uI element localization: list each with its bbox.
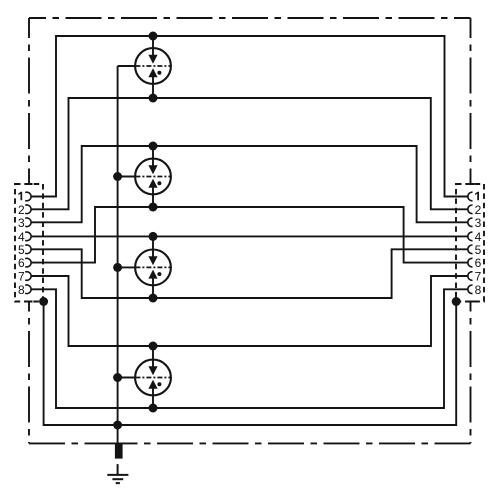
enclosure dash-dot border bottom right part — [118, 442, 471, 444]
wire terminal 2 left-right via G1 bottom bus — [31, 98, 469, 209]
stub G4 bottom — [152, 395, 154, 408]
right terminal 7 contact and label — [468, 270, 482, 284]
node shield-ground junction — [113, 421, 122, 430]
wire terminal 3 left-right via G2 top bus — [31, 146, 469, 222]
right terminal 8 contact and label — [468, 283, 482, 297]
left terminal 2 contact and label — [18, 203, 31, 217]
svg-text:7: 7 — [475, 270, 482, 284]
right terminal 3 contact and label — [468, 216, 482, 230]
stub G2 left electrode — [118, 176, 136, 178]
enclosure dash-dot border top — [29, 17, 471, 19]
svg-text:6: 6 — [475, 256, 482, 270]
node G3 top junction — [149, 232, 158, 241]
node G2 bottom junction — [149, 203, 158, 212]
svg-text:4: 4 — [18, 230, 25, 244]
stub G4 left electrode — [118, 377, 136, 379]
svg-text:2: 2 — [18, 203, 25, 217]
stub G3 bottom — [152, 285, 154, 298]
PE terminal block — [115, 444, 123, 459]
svg-text:7: 7 — [18, 270, 25, 284]
node G1 top junction — [149, 32, 158, 41]
right terminal 4 contact and label — [468, 230, 482, 244]
right terminal block outline — [456, 184, 484, 302]
svg-text:6: 6 — [18, 256, 25, 270]
wire terminal 4 straight through G3 top bus — [31, 235, 469, 237]
stub G3 left electrode — [118, 266, 136, 268]
svg-text:3: 3 — [18, 216, 25, 230]
ground bus vertical wire — [117, 66, 119, 444]
node G2 top junction — [149, 142, 158, 151]
stub G1 top — [152, 36, 154, 49]
gas discharge tube G1 — [135, 48, 171, 84]
wire terminal 7 left-right via G4 top bus — [31, 276, 469, 346]
node G3 bottom junction — [149, 294, 158, 303]
node G4 left junction — [113, 373, 122, 382]
stub G1 left electrode — [118, 65, 136, 67]
left terminal 6 contact and label — [18, 256, 31, 270]
right terminal 1 contact and label — [468, 192, 479, 201]
enclosure dash-dot border right lower — [470, 302, 472, 444]
left terminal block outline — [15, 184, 43, 302]
stub G2 top — [152, 146, 154, 159]
shield wire between block corner nodes — [44, 302, 457, 426]
node G1 bottom junction — [149, 94, 158, 103]
left terminal 7 contact and label — [18, 270, 31, 284]
node G4 bottom junction — [149, 404, 158, 413]
enclosure dash-dot border right upper — [470, 18, 472, 184]
enclosure dash-dot border left upper — [28, 18, 30, 184]
svg-text:8: 8 — [18, 283, 25, 297]
svg-text:3: 3 — [475, 216, 482, 230]
left terminal 5 contact and label — [18, 243, 31, 257]
node shield left block corner — [39, 297, 48, 306]
node G4 top junction — [149, 342, 158, 351]
node G3 left junction — [113, 263, 122, 272]
node shield right block corner — [452, 297, 461, 306]
wire terminal 8 left-right via G4 bottom bus — [31, 289, 469, 408]
stub G2 bottom — [152, 194, 154, 207]
svg-text:2: 2 — [475, 203, 482, 217]
svg-text:5: 5 — [18, 243, 25, 257]
right terminal 6 contact and label — [468, 256, 482, 270]
left terminal 1 contact and label — [18, 192, 31, 201]
ground — [107, 464, 128, 483]
left terminal 4 contact and label — [18, 230, 31, 244]
left terminal 3 contact and label — [18, 216, 31, 230]
stub G4 top — [152, 346, 154, 360]
node G2 left junction — [113, 172, 122, 181]
right terminal 5 contact and label — [468, 243, 482, 257]
gas discharge tube G4 — [135, 360, 171, 396]
svg-text:4: 4 — [475, 230, 482, 244]
gas discharge tube G3 — [135, 250, 171, 286]
stub G3 top — [152, 236, 154, 250]
right terminal 2 contact and label — [468, 203, 482, 217]
svg-text:8: 8 — [475, 283, 482, 297]
enclosure dash-dot border bottom left part — [29, 442, 118, 444]
wire terminal 6 left-right via G2 bottom bus — [31, 207, 469, 263]
svg-text:5: 5 — [475, 243, 482, 257]
gas discharge tube G2 — [135, 159, 171, 195]
stub G1 bottom — [152, 84, 154, 99]
left terminal 8 contact and label — [18, 283, 31, 297]
wire terminal 5 left-right via G3 bottom bus — [31, 249, 469, 298]
enclosure dash-dot border left lower — [28, 302, 30, 444]
wire terminal 1 left-right via top bus — [31, 36, 469, 197]
